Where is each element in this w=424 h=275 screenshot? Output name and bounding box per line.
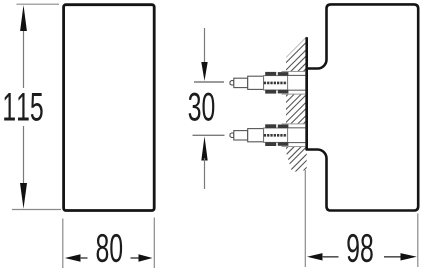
dimension line 115 upper segment bbox=[23, 28, 25, 88]
extension line bottom-left (80 dim) bbox=[62, 219, 64, 269]
arrowhead right (98) bbox=[401, 253, 417, 260]
screw S1 thread band bbox=[264, 82, 287, 85]
arrowhead down (115) bbox=[20, 183, 27, 209]
extension line right (98 dim) bbox=[417, 214, 419, 268]
arrowhead right (80) bbox=[139, 254, 153, 261]
screw and wall plug assemblies bbox=[230, 72, 306, 147]
screw S1 tip bbox=[230, 81, 234, 86]
screw S2 plug neck bbox=[288, 127, 306, 129]
screw S1 hole lines bbox=[282, 71, 306, 73]
arrowhead down (30) bbox=[201, 62, 207, 81]
side view body bbox=[307, 4, 419, 210]
extension line bottom-left (115 dim) bbox=[12, 209, 61, 211]
screw S2 ribs bbox=[265, 124, 276, 128]
tick bottom screw axis bbox=[193, 134, 225, 136]
screw S1 collar bbox=[234, 78, 248, 87]
label 98 bbox=[347, 234, 372, 262]
screw S2 plug body bbox=[264, 128, 288, 142]
dimension line 80 left tail bbox=[80, 257, 88, 259]
front view rectangle bbox=[64, 5, 155, 211]
dimension line 30 upper bbox=[204, 28, 206, 66]
dimension line 98 left tail bbox=[322, 256, 339, 258]
screw S1 plug neck bbox=[288, 74, 306, 76]
label 30 bbox=[189, 93, 215, 121]
screw S2 sleeve bbox=[248, 129, 264, 142]
extension line top-left (115 dim) bbox=[17, 3, 60, 5]
screw S2 tip bbox=[230, 133, 234, 138]
screw S2 hole lines bbox=[282, 123, 306, 125]
arrowhead left (98) bbox=[307, 253, 323, 260]
dimension line 98 right tail bbox=[384, 256, 401, 258]
dimension line 80 right tail bbox=[131, 257, 140, 259]
screw S1 sleeve bbox=[248, 76, 264, 89]
label 115 bbox=[4, 93, 42, 121]
hole cutout bottom screw bbox=[278, 124, 308, 147]
hole cutout top screw bbox=[278, 71, 308, 94]
screw S2 collar bbox=[234, 131, 248, 140]
label 80 bbox=[97, 234, 123, 262]
dimension line 30 lower bbox=[204, 158, 206, 189]
wall face line bbox=[305, 37, 308, 150]
extension line left (98 dim) bbox=[304, 170, 306, 267]
arrowhead left (80) bbox=[65, 254, 81, 261]
tick top screw axis bbox=[194, 81, 224, 83]
arrowhead up (30) bbox=[201, 136, 207, 160]
extension line bottom-right (80 dim) bbox=[153, 218, 155, 269]
dimension line 115 lower segment bbox=[23, 126, 25, 185]
screw S1 ribs bbox=[265, 72, 276, 76]
screw S2 thread band bbox=[264, 134, 287, 137]
screw S1 plug body bbox=[264, 76, 288, 90]
arrowhead up (115) bbox=[20, 5, 27, 31]
